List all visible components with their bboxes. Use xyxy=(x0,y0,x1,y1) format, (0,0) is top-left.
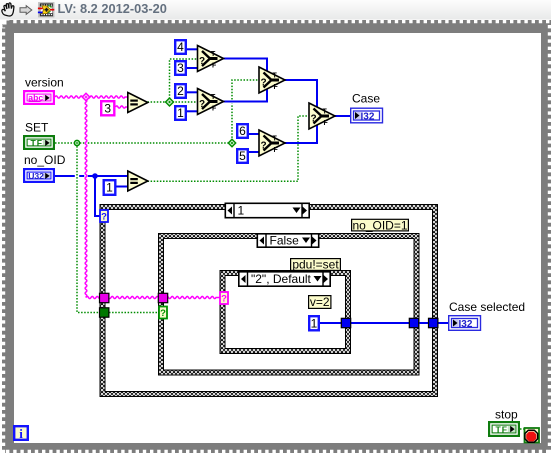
svg-text:4: 4 xyxy=(177,40,184,54)
svg-text:Case selected: Case selected xyxy=(449,300,525,314)
svg-text:3: 3 xyxy=(104,101,111,115)
select node S3 xyxy=(259,67,285,93)
label v=2 xyxy=(309,295,331,309)
wire: const 5 to Select4 F xyxy=(249,151,260,153)
toolbar run arrow icon xyxy=(20,6,32,15)
svg-text:False: False xyxy=(270,234,300,248)
wire: version branch to inner case selector terminal xyxy=(86,296,220,298)
control: SET (boolean TF) xyxy=(24,136,54,149)
inner case selector terminal ? xyxy=(220,292,228,305)
wire: version branch down (vertical wavy) xyxy=(85,97,87,298)
svg-text:3: 3 xyxy=(177,61,184,75)
wire: stop TF to loop condition terminal xyxy=(520,428,525,430)
svg-text:T: T xyxy=(273,136,278,143)
svg-text:I32: I32 xyxy=(361,111,375,122)
inner case selector label [&quot;2&quot;, Default] xyxy=(239,272,330,286)
outer case selector label [1] xyxy=(225,203,309,217)
svg-text:F: F xyxy=(274,84,279,91)
svg-text:T: T xyxy=(273,73,278,80)
svg-text:5: 5 xyxy=(239,149,246,163)
svg-text:Case: Case xyxy=(352,92,380,106)
label pdu!=set xyxy=(291,258,341,272)
junction on SET wire xyxy=(74,140,79,145)
numeric constant 4 xyxy=(175,40,186,54)
wire: const 4 to Select1 T xyxy=(187,48,198,50)
wire: SET branch down to middle case selector xyxy=(77,143,159,313)
svg-text:1: 1 xyxy=(311,316,318,330)
numeric constant 6 xyxy=(237,124,248,138)
wire: inner 1 const to Case selected indicator xyxy=(320,322,449,324)
wire: Select3 out to Select5 T xyxy=(285,80,318,108)
svg-text:SET: SET xyxy=(25,121,49,135)
junction diamond on version wire xyxy=(82,93,90,101)
svg-text:F: F xyxy=(274,147,279,154)
control: version (string) xyxy=(24,91,54,104)
svg-text:T: T xyxy=(211,94,216,101)
toolbar VI icon xyxy=(38,3,54,18)
middle case selector terminal ? xyxy=(159,307,167,320)
svg-text:F: F xyxy=(212,106,217,113)
tunnel pink middle case xyxy=(158,293,167,302)
tunnel green outer case xyxy=(100,308,109,317)
svg-text:1: 1 xyxy=(106,181,113,195)
svg-text:1: 1 xyxy=(238,204,245,218)
wire: no_OID branch down to outer case selector terminal xyxy=(95,176,100,216)
control: no_OID (U32) xyxy=(24,169,54,182)
middle case selector label [False] xyxy=(257,234,318,248)
numeric constant 2 xyxy=(175,84,186,98)
string constant 3 (pink) xyxy=(101,101,114,115)
svg-text:TF: TF xyxy=(496,424,509,434)
wire: Equal1 output to Select2 s-input (boolean) xyxy=(148,101,198,103)
junction dot on no_OID wire xyxy=(92,173,98,179)
equal comparator Equal2 (no_OID=1) xyxy=(128,171,148,191)
wire: SET to Select4 s-input xyxy=(55,142,84,144)
svg-text:1: 1 xyxy=(177,106,184,120)
wire: const 1 to Equal2 bottom xyxy=(116,186,128,188)
outer case selector terminal ? xyxy=(100,210,108,223)
wire: const "3" to Equal1 bottom xyxy=(116,106,128,108)
wire: Select5 out to Case indicator xyxy=(335,115,351,117)
indicator Case selected (I32) xyxy=(449,316,481,331)
junction diamond on Select4 s wire xyxy=(228,139,235,146)
svg-text:?: ? xyxy=(221,294,227,305)
svg-text:i: i xyxy=(19,426,23,441)
svg-text:2: 2 xyxy=(177,84,184,98)
svg-text:I32: I32 xyxy=(459,319,473,330)
numeric constant 1 (inner case) xyxy=(309,316,319,330)
wire: const 3 to Select1 F xyxy=(187,67,198,69)
toolbar background xyxy=(0,0,551,20)
wire: Select1 out to Select3 T xyxy=(223,59,268,72)
wire: const 6 to Select4 T xyxy=(249,133,260,135)
svg-text:F: F xyxy=(212,63,217,70)
numeric constant 1 (equal2) xyxy=(104,180,116,195)
svg-text:T: T xyxy=(211,51,216,58)
select node S2 xyxy=(198,89,224,115)
select node S5 xyxy=(309,103,335,129)
tunnel pink outer case xyxy=(100,293,109,302)
tunnel blue outer case right xyxy=(429,318,438,327)
svg-text:?: ? xyxy=(101,212,107,223)
wire: Select4 out to Select5 F xyxy=(285,125,318,144)
svg-text:no_OID=1: no_OID=1 xyxy=(352,218,407,232)
svg-text:version: version xyxy=(25,76,64,90)
junction diamond on Equal1 wire xyxy=(166,98,174,106)
case structure middle (pdu) border xyxy=(158,233,420,376)
svg-text:TF: TF xyxy=(31,138,44,148)
case structure inner (version) border xyxy=(220,270,352,354)
iteration terminal i xyxy=(14,426,28,441)
svg-text:U32: U32 xyxy=(28,171,44,181)
control: stop (boolean TF) xyxy=(489,422,519,436)
svg-text:v=2: v=2 xyxy=(310,295,330,309)
toolbar hand (pan) icon xyxy=(2,3,14,16)
label no_OID=1 xyxy=(352,218,409,232)
equal comparator Equal1 (version=3) xyxy=(128,93,148,113)
svg-text:?: ? xyxy=(160,308,166,319)
numeric constant 3b xyxy=(175,61,186,75)
wire: no_OID to Equal2 top xyxy=(55,175,75,177)
svg-text:stop: stop xyxy=(495,408,518,422)
loop condition terminal (stop button) xyxy=(525,428,540,443)
numeric constant 1b xyxy=(175,106,186,120)
indicator Case (I32) xyxy=(351,108,383,123)
select node S1 xyxy=(198,46,224,72)
wire: const 1 to Select2 F xyxy=(187,110,198,112)
tunnel blue middle case right xyxy=(409,318,418,327)
svg-text:6: 6 xyxy=(239,124,246,138)
svg-text:pdu!=set: pdu!=set xyxy=(292,258,339,272)
svg-text:LV: 8.2 2012-03-20: LV: 8.2 2012-03-20 xyxy=(58,1,167,16)
wire: branch up to Select3 s-input xyxy=(231,104,233,142)
svg-text:"2", Default: "2", Default xyxy=(251,272,312,286)
wire: version string to Equal1 top (pink wavy) xyxy=(55,96,128,98)
select node S4 xyxy=(259,130,285,156)
svg-text:T: T xyxy=(323,109,328,116)
wire: Select2 out to Select3 F xyxy=(223,89,268,102)
wire: branch up to Select1 s-input xyxy=(170,59,198,102)
numeric constant 5 xyxy=(237,149,248,163)
wire: const 2 to Select2 T xyxy=(187,91,198,93)
svg-text:F: F xyxy=(324,120,329,127)
tunnel blue inner case right xyxy=(341,318,350,327)
svg-text:no_OID: no_OID xyxy=(24,153,66,167)
case structure outer (no_OID) border xyxy=(100,204,439,397)
wire: Equal2 output to Select5 s-input xyxy=(148,116,310,181)
